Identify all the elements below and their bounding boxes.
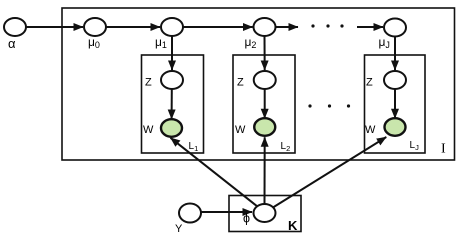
svg-text:Z: Z — [237, 77, 244, 89]
node muJ — [384, 19, 406, 37]
node Z1 — [161, 71, 183, 89]
node mu2 — [254, 18, 276, 36]
svg-text:W: W — [365, 124, 376, 136]
node W1 (observed) — [161, 119, 182, 137]
wire mu0 to mu1 — [107, 26, 161, 28]
wire ZJ to WJ — [394, 90, 396, 119]
plate L2 — [233, 55, 295, 153]
svg-text:Z: Z — [145, 77, 152, 89]
wire Z2 to W2 — [264, 90, 266, 119]
plate LJ — [365, 55, 426, 153]
plate L1 — [142, 55, 204, 153]
dots top — [311, 24, 314, 27]
wire phi to W1 — [171, 138, 258, 207]
node WJ (observed) — [385, 118, 406, 136]
svg-text:W: W — [143, 124, 154, 136]
wire mu1 to mu2 — [184, 26, 253, 28]
wire Z1 to W1 — [171, 90, 173, 120]
node Y — [179, 204, 201, 223]
svg-text:W: W — [235, 124, 246, 136]
plate I (outer rectangle) — [62, 8, 455, 160]
svg-text:K: K — [288, 218, 298, 233]
svg-text:Y: Y — [175, 223, 183, 235]
svg-text:I: I — [441, 142, 446, 157]
node phi — [254, 204, 276, 222]
node ZJ — [384, 71, 406, 89]
dots middle — [308, 104, 311, 107]
node W2 (observed) — [254, 118, 275, 136]
wire phi to WJ — [273, 137, 386, 207]
node mu1 — [161, 18, 183, 36]
wire mu1 to Z1 — [171, 37, 173, 71]
wire Y to phi — [202, 211, 253, 213]
svg-text:ϕ: ϕ — [243, 212, 250, 226]
wire phi to W2 — [264, 137, 266, 204]
wire alpha to mu0 — [27, 26, 84, 28]
svg-text:α: α — [8, 36, 16, 51]
node mu0 — [84, 18, 106, 36]
wire muJ to ZJ — [394, 37, 396, 71]
plate K (bottom rectangle) — [229, 196, 301, 232]
svg-text:Z: Z — [366, 77, 373, 89]
wire dots to muJ — [357, 26, 383, 28]
node alpha — [4, 18, 26, 36]
wire mu2 to dots — [276, 26, 298, 28]
node Z2 — [254, 71, 276, 89]
wire mu2 to Z2 — [264, 37, 266, 71]
